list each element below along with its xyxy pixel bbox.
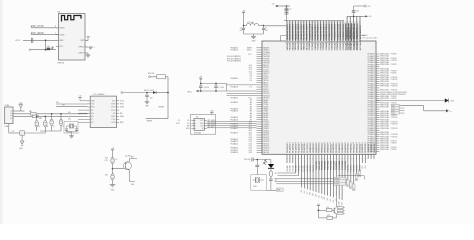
- svg-text:WP: WP: [187, 125, 190, 127]
- svg-text:PG2/AD0/PCINT8: PG2/AD0/PCINT8: [308, 23, 311, 40]
- svg-text:U6: U6: [196, 116, 198, 118]
- svg-text:54: 54: [342, 142, 344, 144]
- svg-text:CS: CS: [187, 120, 189, 122]
- svg-text:PL6/T66: PL6/T66: [304, 165, 306, 171]
- svg-text:CON6: CON6: [4, 105, 9, 107]
- svg-text:PL0/T00: PL0/T00: [287, 165, 289, 171]
- svg-text:PCINT5: PCINT5: [391, 149, 397, 151]
- svg-text:62: 62: [365, 142, 367, 144]
- svg-text:80: 80: [313, 43, 315, 45]
- svg-text:83: 83: [321, 43, 323, 45]
- svg-text:70: 70: [285, 43, 287, 45]
- svg-text:ESP_URXD: ESP_URXD: [31, 32, 44, 35]
- svg-text:104: 104: [265, 30, 268, 32]
- svg-text:PCINT5: PCINT5: [391, 64, 397, 66]
- svg-text:PB6/TX44: PB6/TX44: [327, 160, 330, 170]
- svg-text:104: 104: [150, 98, 153, 100]
- svg-text:V3: V3: [91, 110, 93, 112]
- svg-text:VCC0/AD0: VCC0/AD0: [346, 41, 349, 50]
- svg-text:PCINT0: PCINT0: [391, 96, 397, 98]
- svg-text:GND: GND: [59, 40, 64, 42]
- svg-text:PL66/OC6: PL66/OC6: [304, 144, 306, 153]
- svg-text:RI#: RI#: [113, 113, 116, 115]
- svg-text:87: 87: [333, 43, 335, 45]
- svg-text:AVCC4/AD4: AVCC4/AD4: [359, 40, 362, 50]
- svg-text:GPIO2: GPIO2: [78, 53, 84, 55]
- svg-text:PCINT10: PCINT10: [391, 117, 398, 119]
- svg-text:90: 90: [341, 43, 343, 45]
- svg-text:UD-: UD-: [91, 116, 94, 118]
- svg-text:R232: R232: [120, 122, 124, 124]
- svg-text:104: 104: [356, 11, 359, 13]
- svg-text:PH2/TX88: PH2/TX88: [339, 160, 341, 170]
- svg-text:UD+: UD+: [56, 102, 59, 104]
- svg-text:DTR1: DTR1: [120, 107, 124, 109]
- svg-text:PC2/D11: PC2/D11: [263, 69, 269, 71]
- svg-text:PJ5/AD3/PCINT1: PJ5/AD3/PCINT1: [317, 24, 320, 41]
- svg-text:D33: D33: [324, 197, 326, 200]
- svg-text:PB08/OC0: PB08/OC0: [310, 144, 312, 153]
- svg-text:46: 46: [318, 142, 320, 144]
- svg-text:48: 48: [324, 142, 326, 144]
- svg-text:PC4/AD2/PCINT8: PC4/AD2/PCINT8: [336, 23, 339, 40]
- svg-text:PH0/TX66: PH0/TX66: [333, 160, 335, 170]
- svg-text:VCC-VCC-V: VCC-VCC-V: [347, 27, 349, 39]
- svg-text:PH7/D6: PH7/D6: [263, 80, 269, 82]
- svg-text:GND-GND-V: GND-GND-V: [350, 27, 352, 39]
- svg-text:PB7/OC3A: PB7/OC3A: [380, 84, 389, 87]
- svg-text:PCINT2: PCINT2: [391, 58, 397, 60]
- svg-text:+3V3: +3V3: [210, 110, 214, 112]
- svg-text:J4: J4: [338, 205, 340, 207]
- svg-text:39: 39: [298, 142, 300, 144]
- svg-text:88: 88: [335, 43, 337, 45]
- svg-text:PH5/T11: PH5/T11: [348, 165, 350, 172]
- svg-text:FB2: FB2: [39, 118, 42, 120]
- svg-text:PWM2: PWM2: [335, 184, 340, 186]
- svg-text:82: 82: [319, 43, 321, 45]
- svg-text:PA4/AD4/PCINT4: PA4/AD4/PCINT4: [297, 23, 300, 40]
- svg-text:PH39/OC3: PH39/OC3: [342, 144, 344, 153]
- svg-text:PD3/D2: PD3/D2: [263, 89, 269, 91]
- svg-text:84: 84: [324, 43, 326, 45]
- svg-text:C16 22p: C16 22p: [244, 159, 250, 161]
- svg-text:47: 47: [321, 142, 323, 144]
- svg-text:73: 73: [293, 43, 295, 45]
- svg-text:PC2/AD4/PCINT0: PC2/AD4/PCINT0: [342, 23, 345, 40]
- svg-text:PJ4/AD4/PCINT2: PJ4/AD4/PCINT2: [320, 24, 323, 41]
- svg-text:PG0 (OC2B/INT6): PG0 (OC2B/INT6): [227, 60, 241, 62]
- svg-text:7: 7: [55, 33, 56, 35]
- svg-text:PH17/OC1: PH17/OC1: [336, 144, 338, 153]
- svg-text:PB1/OC1A: PB1/OC1A: [380, 106, 389, 109]
- svg-text:85: 85: [327, 43, 329, 45]
- svg-text:PJ3/AD5/PCINT3: PJ3/AD5/PCINT3: [322, 24, 325, 41]
- svg-text:PL11/OC1: PL11/OC1: [290, 144, 292, 153]
- svg-text:86: 86: [330, 43, 332, 45]
- svg-text:PE4/TX0: PE4/TX0: [263, 91, 269, 93]
- svg-text:PH73/OC7: PH73/OC7: [354, 144, 356, 153]
- svg-text:PB0/T88: PB0/T88: [310, 165, 312, 172]
- svg-text:PE4/D26: PE4/D26: [263, 143, 269, 145]
- svg-text:PCINT8: PCINT8: [391, 71, 397, 73]
- svg-text:43: 43: [310, 142, 312, 144]
- svg-text:PL33/OC3: PL33/OC3: [296, 144, 298, 153]
- svg-text:D11: D11: [318, 195, 320, 198]
- svg-text:PCINT19: PCINT19: [391, 136, 398, 138]
- svg-text:PH7/SCL: PH7/SCL: [263, 98, 270, 100]
- svg-text:PH28/OC2: PH28/OC2: [339, 144, 341, 153]
- svg-text:PB1/D4: PB1/D4: [263, 85, 269, 87]
- svg-text:VCC2/AD2: VCC2/AD2: [352, 41, 355, 50]
- svg-text:PJ6/AD2/PCINT0: PJ6/AD2/PCINT0: [314, 24, 317, 41]
- svg-text:PB5/OC1A: PB5/OC1A: [380, 148, 389, 151]
- svg-text:CTS#: CTS#: [111, 119, 115, 121]
- svg-text:U7 CH340G: U7 CH340G: [93, 94, 104, 96]
- svg-text:8: 8: [55, 26, 56, 28]
- svg-text:PCINT2: PCINT2: [391, 143, 397, 145]
- svg-text:1: 1: [10, 111, 11, 113]
- svg-text:DSR1: DSR1: [120, 116, 124, 118]
- svg-text:D99: D99: [342, 202, 344, 205]
- svg-text:PH1/TX77: PH1/TX77: [336, 160, 338, 170]
- svg-text:PCINT3: PCINT3: [391, 60, 397, 62]
- svg-text:PL3/T33: PL3/T33: [296, 165, 298, 171]
- svg-text:PC6/AD0/PCINT6: PC6/AD0/PCINT6: [331, 23, 334, 40]
- svg-text:GND3/AD3: GND3/AD3: [356, 41, 359, 50]
- svg-text:D30: D30: [249, 152, 252, 154]
- svg-text:PCINT4: PCINT4: [391, 147, 397, 149]
- svg-text:PB31/OC3: PB31/OC3: [319, 144, 321, 153]
- svg-text:UD-: UD-: [62, 105, 65, 107]
- svg-text:4: 4: [10, 118, 11, 120]
- svg-text:PE2: PE2: [362, 165, 364, 168]
- svg-text:PL5/T55: PL5/T55: [301, 165, 303, 171]
- svg-text:PC3/AD3/PCINT9: PC3/AD3/PCINT9: [339, 23, 342, 40]
- svg-text:PA6/AD6/PCINT6: PA6/AD6/PCINT6: [303, 23, 306, 40]
- svg-text:61: 61: [362, 142, 364, 144]
- svg-text:C11: C11: [12, 131, 15, 133]
- svg-text:D99: D99: [313, 193, 315, 196]
- svg-text:51: 51: [333, 142, 335, 144]
- svg-text:41: 41: [304, 142, 306, 144]
- svg-text:PB19/OC1: PB19/OC1: [313, 144, 315, 153]
- svg-text:RESET: RESET: [159, 107, 165, 109]
- svg-text:PL22/OC2: PL22/OC2: [293, 144, 295, 153]
- svg-text:PJ2/AD6/PCINT4: PJ2/AD6/PCINT4: [325, 24, 328, 41]
- svg-text:PL77/OC7: PL77/OC7: [307, 144, 309, 153]
- svg-text:DTR#: DTR#: [111, 107, 115, 109]
- svg-text:PH7/T33: PH7/T33: [354, 165, 356, 172]
- svg-text:R17: R17: [327, 207, 330, 209]
- svg-text:1K: 1K: [116, 159, 118, 161]
- svg-text:PCINT1: PCINT1: [391, 98, 397, 100]
- svg-text:PL4/T44: PL4/T44: [298, 165, 300, 171]
- svg-text:PL1/T11: PL1/T11: [290, 165, 292, 171]
- svg-text:PB3/OC3A: PB3/OC3A: [380, 127, 389, 130]
- svg-text:PCINT15: PCINT15: [391, 85, 398, 87]
- svg-text:PB7/TX55: PB7/TX55: [330, 160, 332, 170]
- svg-text:D55: D55: [330, 199, 332, 202]
- svg-text:RST: RST: [131, 157, 134, 159]
- svg-text:R16 10K: R16 10K: [148, 73, 155, 75]
- svg-text:35: 35: [287, 142, 289, 144]
- svg-text:PC2/D3: PC2/D3: [263, 87, 269, 89]
- svg-text:C5: C5: [289, 9, 291, 11]
- svg-text:PB5/TX33: PB5/TX33: [325, 160, 327, 170]
- svg-text:72: 72: [291, 43, 293, 45]
- svg-text:VCC5: VCC5: [120, 100, 124, 102]
- svg-text:PF5/D27: PF5/D27: [263, 146, 269, 148]
- svg-text:PB1/D23: PB1/D23: [263, 137, 269, 139]
- svg-text:PH06/OC0: PH06/OC0: [333, 144, 335, 153]
- svg-text:37: 37: [292, 142, 294, 144]
- svg-text:R13: R13: [105, 175, 108, 177]
- svg-text:2: 2: [94, 47, 95, 49]
- svg-text:PE1/T55: PE1/T55: [359, 165, 361, 172]
- svg-text:PA7/AD7/PCINT7: PA7/AD7/PCINT7: [306, 23, 309, 40]
- svg-text:40: 40: [301, 142, 303, 144]
- svg-text:2: 2: [10, 113, 11, 115]
- svg-text:C6 104: C6 104: [204, 87, 209, 89]
- svg-text:PD3/D10: PD3/D10: [263, 71, 270, 73]
- svg-text:PL55/OC5: PL55/OC5: [301, 144, 303, 153]
- svg-text:RESET: RESET: [147, 121, 153, 123]
- svg-text:PCINT11: PCINT11: [391, 77, 398, 79]
- svg-text:ESP-01: ESP-01: [58, 63, 66, 65]
- svg-text:UD+: UD+: [68, 119, 71, 121]
- svg-text:60: 60: [359, 142, 361, 144]
- svg-text:77: 77: [305, 43, 307, 45]
- svg-text:URXD: URXD: [59, 28, 65, 30]
- svg-text:1: 1: [90, 37, 91, 39]
- svg-text:42: 42: [307, 142, 309, 144]
- svg-text:ATmega2560-16AU: ATmega2560-16AU: [363, 37, 379, 40]
- svg-text:81: 81: [316, 43, 318, 45]
- svg-text:UD+: UD+: [91, 113, 94, 115]
- svg-text:79: 79: [310, 43, 312, 45]
- svg-text:PL2/T22: PL2/T22: [293, 165, 295, 171]
- svg-text:89: 89: [338, 43, 340, 45]
- svg-text:PG6/D7: PG6/D7: [263, 78, 269, 80]
- svg-text:59: 59: [356, 142, 358, 144]
- svg-text:44: 44: [313, 142, 315, 144]
- svg-text:PCINT0: PCINT0: [391, 54, 397, 56]
- svg-text:PCINT13: PCINT13: [391, 124, 398, 126]
- svg-text:75: 75: [299, 43, 301, 45]
- svg-text:C7 104: C7 104: [219, 87, 224, 89]
- svg-text:PB64/OC6: PB64/OC6: [326, 144, 329, 153]
- svg-text:D66: D66: [304, 190, 306, 193]
- svg-text:PA3/AD3/PCINT3: PA3/AD3/PCINT3: [294, 23, 297, 40]
- svg-text:FB1: FB1: [29, 111, 32, 113]
- svg-text:PCINT15: PCINT15: [391, 128, 398, 130]
- svg-text:R19: R19: [327, 215, 330, 217]
- svg-text:D44: D44: [327, 198, 329, 201]
- svg-text:56: 56: [347, 142, 349, 144]
- svg-text:36: 36: [289, 142, 291, 144]
- svg-text:D88: D88: [310, 192, 312, 195]
- svg-text:VCC: VCC: [59, 46, 64, 48]
- svg-text:PF5/RX0: PF5/RX0: [263, 93, 270, 95]
- svg-text:PD3/VCC: PD3/VCC: [263, 54, 271, 56]
- svg-text:71: 71: [288, 43, 290, 45]
- svg-text:L2 10uH: L2 10uH: [247, 22, 254, 24]
- svg-text:RTS1: RTS1: [120, 104, 124, 106]
- svg-text:PB5/OC1A: PB5/OC1A: [380, 97, 389, 100]
- svg-text:PE4/D9: PE4/D9: [263, 74, 269, 76]
- svg-text:PJ7/AD1/PCINT9: PJ7/AD1/PCINT9: [311, 24, 314, 41]
- svg-text:+5V: +5V: [317, 204, 320, 206]
- svg-text:PH6/T22: PH6/T22: [351, 165, 353, 172]
- svg-text:PCINT12: PCINT12: [391, 121, 398, 123]
- svg-text:PC2/D24: PC2/D24: [263, 139, 270, 141]
- svg-text:50: 50: [330, 142, 332, 144]
- svg-text:45: 45: [316, 142, 318, 144]
- svg-text:PF5/D8: PF5/D8: [263, 76, 269, 78]
- svg-text:PB5/OC1A: PB5/OC1A: [380, 63, 389, 66]
- svg-text:UTXD: UTXD: [59, 34, 65, 36]
- svg-text:GND: GND: [252, 41, 257, 43]
- svg-text:GPIO0: GPIO0: [78, 47, 84, 49]
- svg-text:78: 78: [307, 43, 309, 45]
- svg-text:PD3/D25: PD3/D25: [263, 141, 270, 143]
- svg-text:PB53/OC5: PB53/OC5: [325, 144, 327, 153]
- svg-text:PA0/AD0/PCINT0: PA0/AD0/PCINT0: [286, 23, 289, 40]
- svg-text:3: 3: [10, 115, 11, 117]
- svg-text:D6: D6: [250, 80, 252, 82]
- svg-text:PC7/AD7/PCINT5: PC7/AD7/PCINT5: [328, 23, 331, 40]
- svg-text:PCINT18: PCINT18: [391, 134, 398, 136]
- svg-text:R12: R12: [105, 158, 108, 160]
- svg-text:38: 38: [295, 142, 297, 144]
- svg-text:PCINT1: PCINT1: [391, 141, 397, 143]
- svg-text:74: 74: [296, 43, 298, 45]
- svg-text:RTS#: RTS#: [111, 104, 115, 106]
- svg-text:PCINT14: PCINT14: [391, 83, 398, 85]
- svg-text:R232: R232: [112, 122, 116, 124]
- svg-text:76: 76: [302, 43, 304, 45]
- svg-text:W25Q64: W25Q64: [194, 133, 201, 135]
- svg-text:PCINT3: PCINT3: [391, 102, 397, 104]
- svg-text:PF5/RES: PF5/RES: [263, 58, 270, 60]
- svg-text:PL00/OC0: PL00/OC0: [287, 144, 289, 153]
- svg-text:PH3/TX99: PH3/TX99: [342, 160, 344, 170]
- svg-text:49: 49: [327, 142, 329, 144]
- svg-text:PB3/TX11: PB3/TX11: [319, 160, 321, 170]
- svg-text:PCINT12: PCINT12: [391, 79, 398, 81]
- svg-text:PL7/T77: PL7/T77: [307, 165, 309, 171]
- svg-text:PB1/T99: PB1/T99: [313, 165, 315, 172]
- svg-text:DSR#: DSR#: [111, 116, 116, 118]
- svg-text:PH62/OC6: PH62/OC6: [351, 144, 353, 153]
- svg-text:PA2/AD2/PCINT2: PA2/AD2/PCINT2: [292, 23, 295, 40]
- svg-text:ESP_UTXD: ESP_UTXD: [31, 25, 44, 28]
- svg-text:UD-: UD-: [68, 112, 71, 114]
- svg-text:55: 55: [345, 142, 347, 144]
- svg-text:53: 53: [339, 142, 341, 144]
- svg-text:PE26/OC2: PE26/OC2: [362, 144, 364, 153]
- svg-text:PH4/TX00: PH4/TX00: [344, 160, 347, 170]
- svg-text:PG6/D28: PG6/D28: [263, 148, 270, 150]
- svg-text:AVCC-AVCC-V: AVCC-AVCC-V: [359, 25, 362, 39]
- svg-text:TX3: TX3: [392, 113, 395, 115]
- svg-text:104: 104: [239, 30, 242, 32]
- svg-text:SS: SS: [178, 120, 180, 122]
- svg-text:PB1/D12: PB1/D12: [263, 67, 269, 69]
- svg-text:PE15/OC1: PE15/OC1: [359, 144, 361, 153]
- svg-text:RI0: RI0: [120, 113, 123, 115]
- svg-text:C10: C10: [47, 46, 50, 48]
- svg-text:D3: D3: [250, 87, 252, 89]
- svg-text:58: 58: [353, 142, 355, 144]
- svg-text:DCD#: DCD#: [111, 110, 116, 112]
- svg-text:PCINT9: PCINT9: [391, 73, 397, 75]
- svg-text:SPI_SS: SPI_SS: [208, 127, 215, 129]
- svg-text:PE4/GND: PE4/GND: [263, 56, 271, 58]
- svg-text:PB4/TX22: PB4/TX22: [321, 160, 324, 170]
- svg-text:D00: D00: [316, 194, 318, 197]
- svg-text:PE04/OC0: PE04/OC0: [355, 144, 358, 153]
- svg-text:D88: D88: [339, 201, 341, 204]
- svg-text:PH51/OC5: PH51/OC5: [348, 144, 350, 153]
- svg-text:D22: D22: [321, 196, 323, 199]
- svg-text:GND-GND-V: GND-GND-V: [357, 27, 359, 39]
- svg-text:VCC-VCC-V: VCC-VCC-V: [354, 27, 356, 39]
- svg-text:PE3: PE3: [365, 165, 367, 168]
- svg-text:PB2/TX00: PB2/TX00: [316, 160, 318, 170]
- svg-text:PC5/AD1/PCINT7: PC5/AD1/PCINT7: [334, 23, 337, 40]
- svg-text:D66: D66: [333, 199, 335, 202]
- svg-text:D55: D55: [301, 190, 303, 193]
- svg-text:AVCC: AVCC: [247, 49, 252, 52]
- svg-text:PH7/D29: PH7/D29: [263, 150, 270, 152]
- svg-text:PA5/AD5/PCINT5: PA5/AD5/PCINT5: [300, 23, 303, 40]
- svg-text:PB20/OC2: PB20/OC2: [316, 144, 318, 153]
- svg-text:GND1/AD1: GND1/AD1: [349, 41, 352, 50]
- svg-text:PCINT9: PCINT9: [391, 115, 397, 117]
- svg-text:52: 52: [336, 142, 338, 144]
- svg-text:PA1/AD1/PCINT1: PA1/AD1/PCINT1: [289, 23, 292, 40]
- svg-text:91: 91: [344, 43, 346, 45]
- svg-text:104: 104: [275, 180, 278, 182]
- svg-text:PB75/OC7: PB75/OC7: [330, 144, 332, 153]
- svg-text:D+: D+: [450, 111, 452, 113]
- svg-text:57: 57: [350, 142, 352, 144]
- svg-text:D77: D77: [307, 191, 309, 194]
